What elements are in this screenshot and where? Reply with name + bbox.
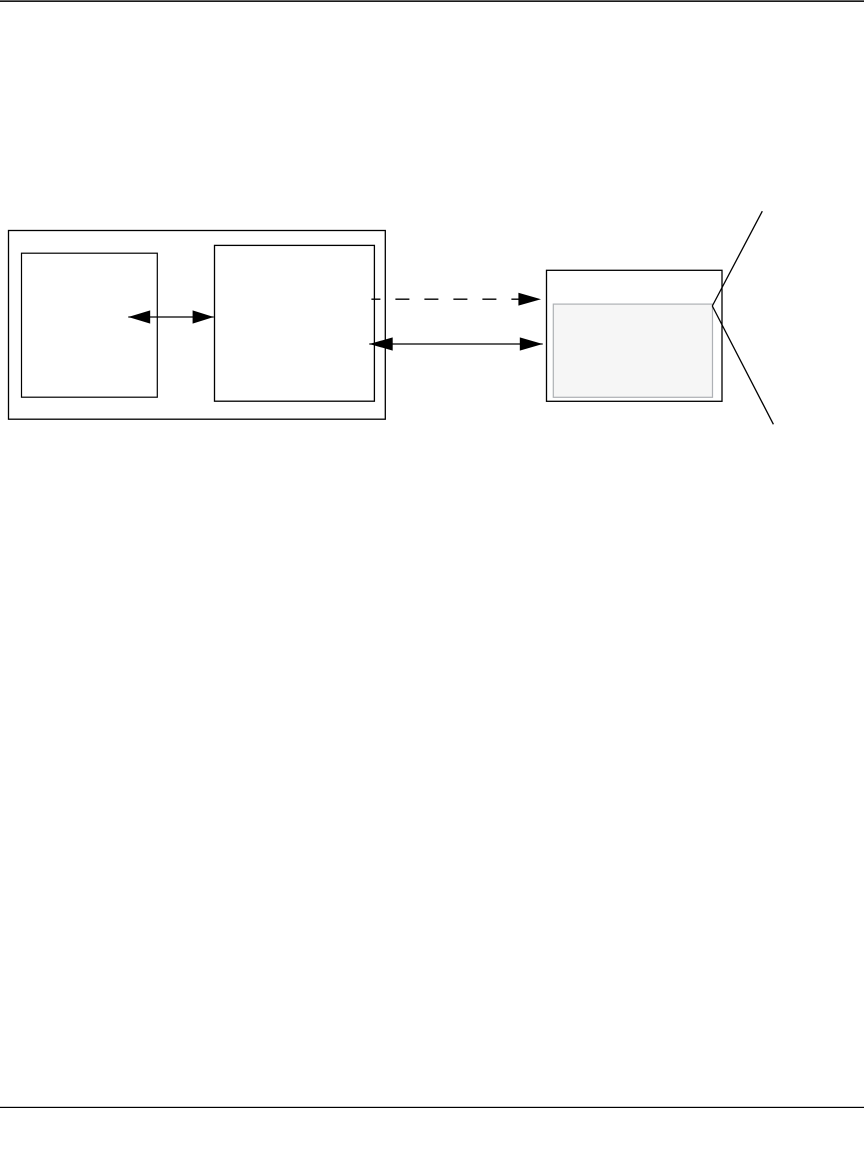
screen panel inside device (553, 304, 712, 397)
outer box (computer system enclosure) (9, 231, 386, 420)
right inner box (adapter) (215, 245, 375, 401)
left inner box (application) (22, 253, 158, 397)
arrowhead left of wired link (369, 337, 392, 350)
wire: double-arrow shaft between inner boxes (128, 316, 213, 318)
bottom rule (0, 1107, 864, 1108)
dashed arrow head (518, 293, 541, 306)
antenna beam line lower (712, 306, 773, 424)
arrowhead right of inner double arrow (193, 310, 214, 323)
antenna beam line upper (712, 211, 762, 306)
arrowhead left of inner double arrow (128, 310, 150, 323)
wire: solid double-arrow shaft (wired link) (369, 343, 542, 345)
top rule (0, 0, 864, 2)
dashed arrow shaft (wireless link) (371, 298, 519, 300)
access point device box (547, 270, 723, 401)
arrowhead right of wired link (520, 337, 543, 350)
